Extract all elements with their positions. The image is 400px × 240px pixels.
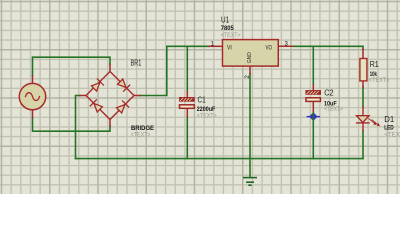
svg-text:D1: D1 — [384, 115, 395, 124]
bridge diode lower-left — [90, 100, 102, 112]
wire C1 tap — [186, 46, 188, 91]
svg-text:<TEXT>: <TEXT> — [197, 113, 217, 120]
wire C2 bottom to bus — [312, 112, 314, 159]
wire LED to bus — [362, 131, 364, 159]
svg-text:U1: U1 — [221, 15, 230, 24]
svg-text:<TEXT>: <TEXT> — [369, 77, 390, 84]
bridge diode upper-right — [118, 79, 130, 91]
svg-text:VI: VI — [227, 45, 232, 51]
capacitor C1 — [180, 92, 195, 118]
wire U1 output rail — [293, 46, 363, 49]
wire source bottom to bridge bottom — [33, 118, 111, 132]
svg-text:<TEXT>: <TEXT> — [384, 132, 400, 139]
svg-text:R1: R1 — [370, 60, 379, 69]
wire bridge right to U1 input — [140, 46, 209, 95]
voltage regulator U1 — [209, 40, 293, 74]
bridge rectifier BR1 body — [86, 72, 134, 120]
LED D1 light arrows — [369, 119, 380, 127]
svg-text:<TEXT>: <TEXT> — [221, 32, 241, 39]
svg-text:BR1: BR1 — [131, 58, 142, 67]
svg-text:<TEXT>: <TEXT> — [324, 106, 343, 113]
wire U1 gnd to ground — [249, 74, 251, 178]
wire C2 tap — [312, 46, 314, 85]
resistor R1 — [360, 49, 367, 87]
bridge diode upper-left — [91, 79, 103, 91]
svg-text:C2: C2 — [324, 89, 334, 98]
bridge diode lower-right — [117, 101, 129, 113]
wire C1 bottom to bus — [186, 117, 188, 159]
svg-text:GND: GND — [247, 52, 253, 63]
svg-text:C1: C1 — [198, 95, 207, 104]
ground — [244, 178, 256, 186]
bridge rectifier BR1 pins — [80, 65, 140, 127]
svg-text:7805: 7805 — [221, 25, 234, 32]
AC source — [19, 76, 45, 118]
svg-text:<TEXT>: <TEXT> — [131, 132, 151, 139]
svg-text:VO: VO — [266, 45, 273, 51]
capacitor C2 — [306, 85, 321, 112]
node marker (blue diamond) at C2 output net — [307, 112, 319, 121]
wire R1 to LED — [362, 87, 364, 107]
wire ground bus — [76, 158, 364, 160]
wire source top to bridge top — [33, 57, 111, 76]
LED D1 — [357, 107, 369, 131]
wire bridge left to ground bus — [76, 96, 81, 159]
